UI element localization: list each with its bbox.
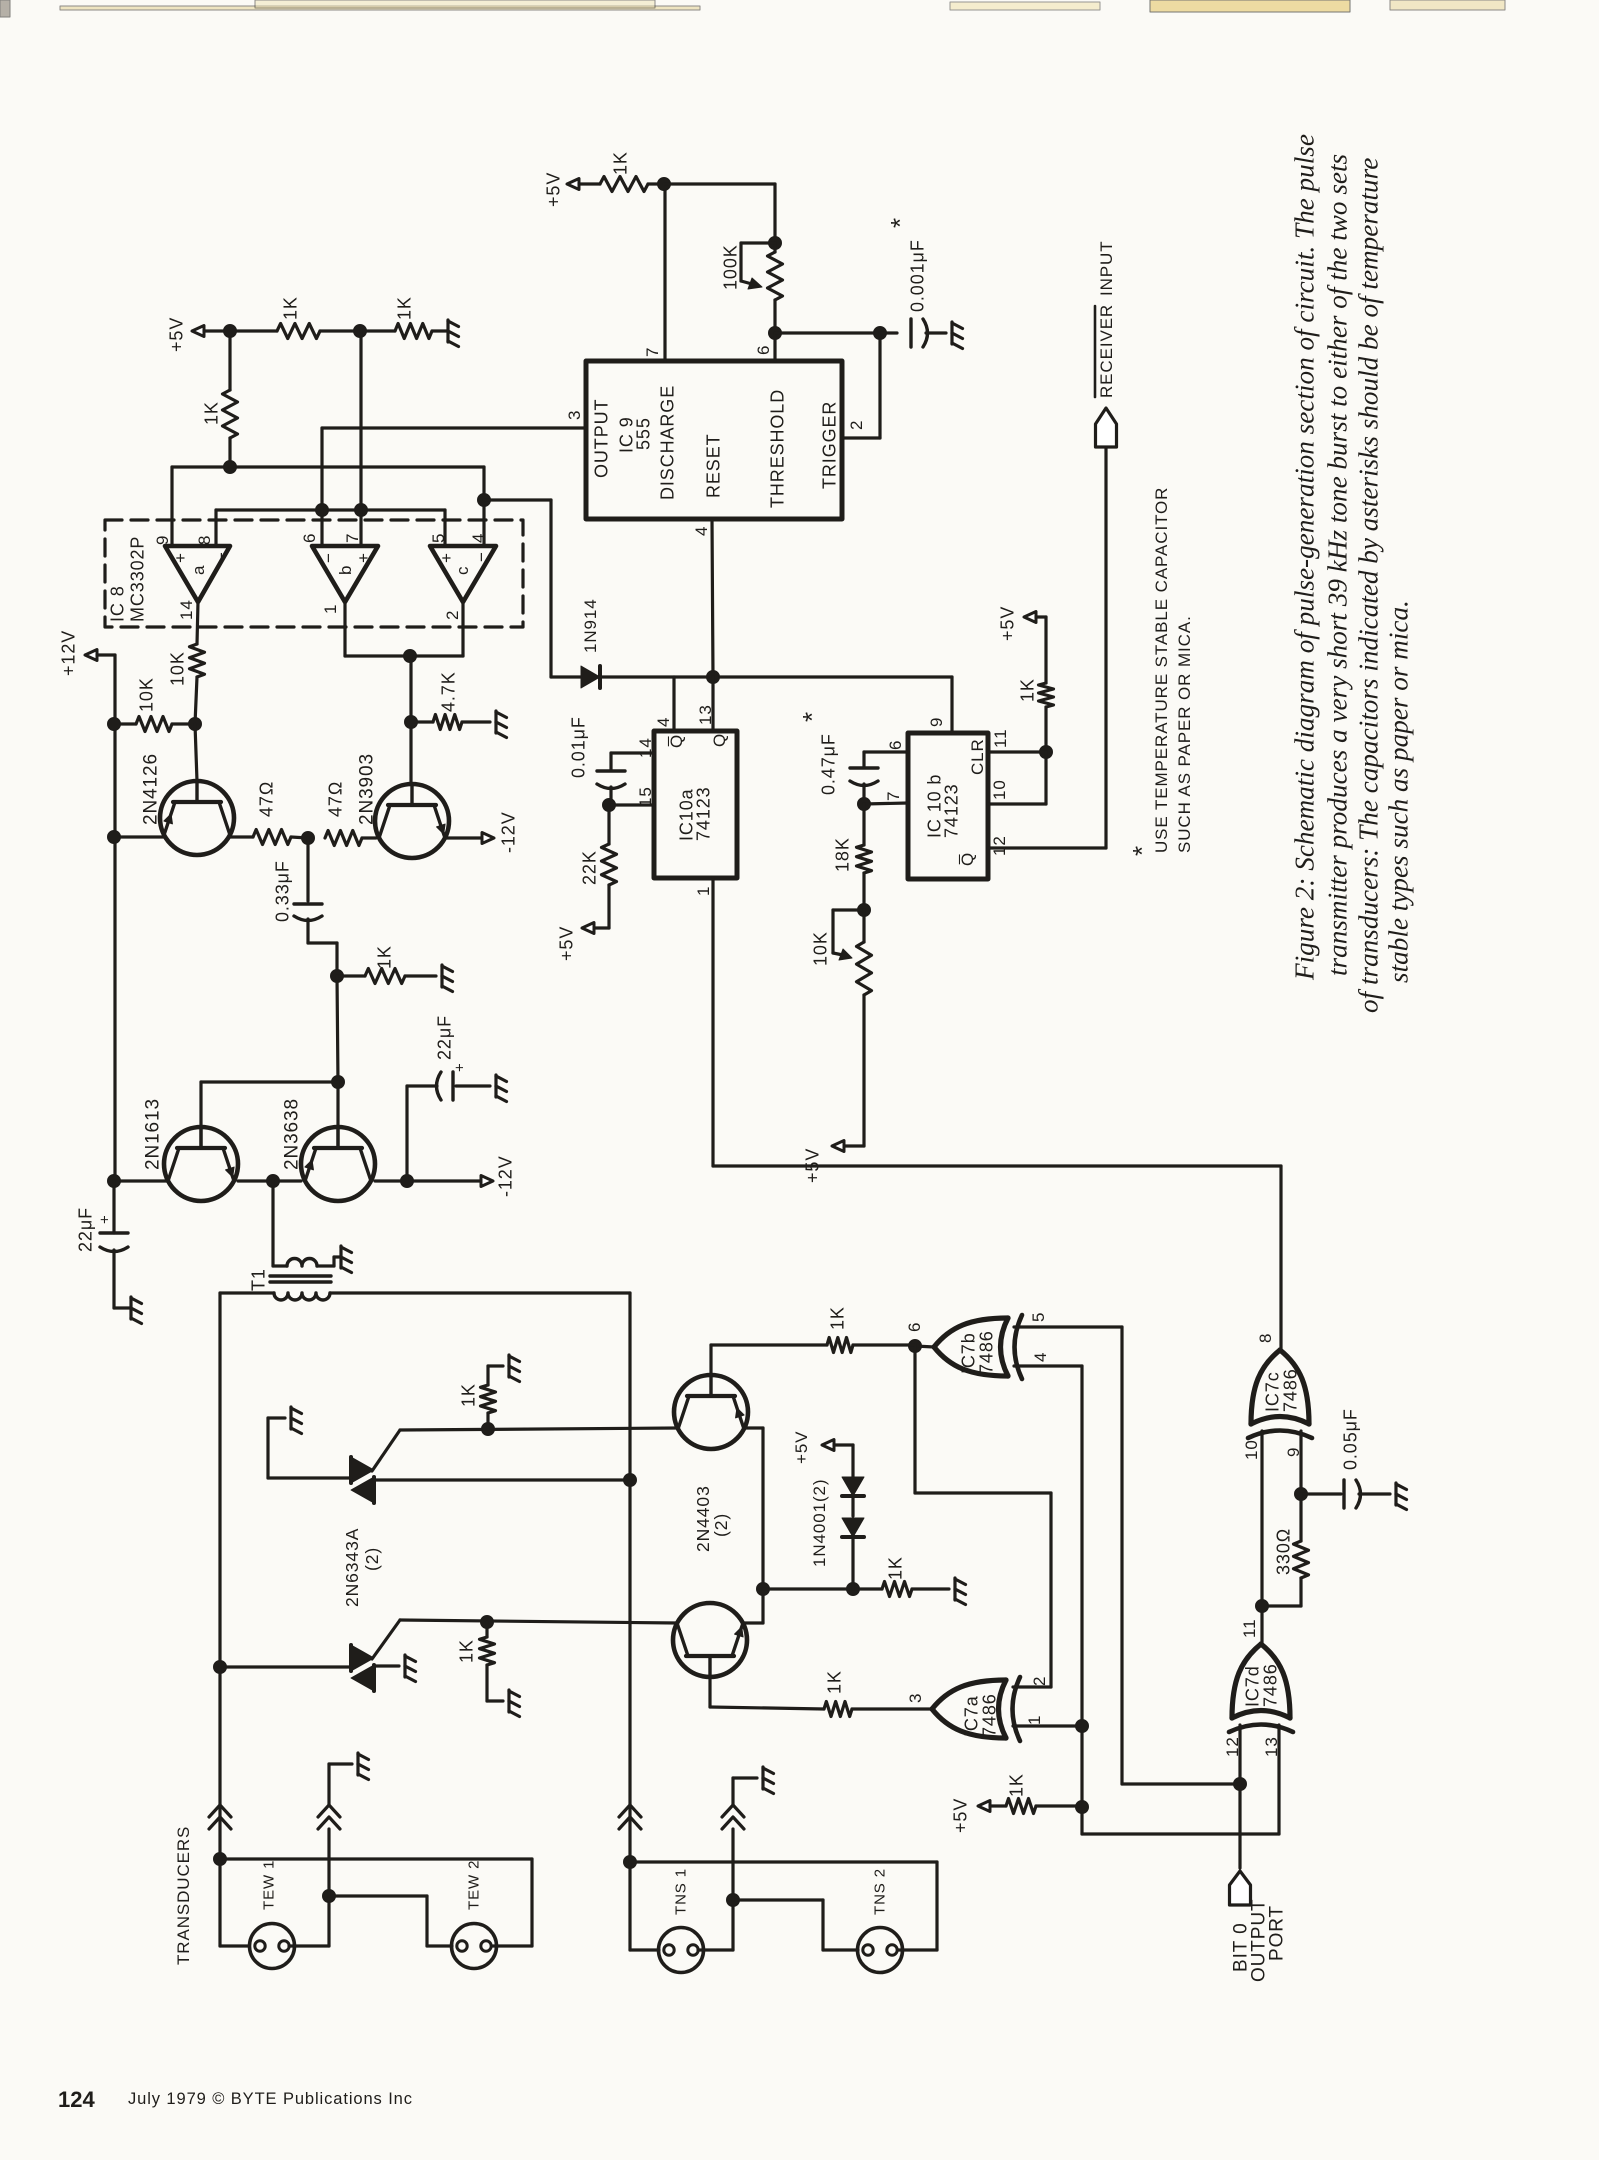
svg-text:7: 7 [643,347,662,357]
wire pin 6 [773,333,776,361]
op-amp U-c (IC8 section c) [430,546,496,602]
svg-text:1: 1 [694,886,713,896]
wire +5V rail [230,329,447,332]
transformer T1 secondary [274,1293,330,1300]
transducer TEW1 [250,1860,295,1969]
node 0.33uF/1K [331,970,344,983]
IC9 555 labels [591,385,839,508]
pin 6 label (555) [754,345,773,355]
svg-text:+12V: +12V [58,630,78,676]
svg-text:THRESHOLD: THRESHOLD [767,389,787,508]
node pin4/pin1 [1076,1720,1089,1733]
pin 4 label [469,533,488,543]
transistor Q5 2N4403 (upper) [674,1375,748,1449]
pin 13 label [696,704,715,725]
wire pin 15 [609,803,654,806]
svg-text:1K: 1K [456,1639,476,1663]
ground (emitter 1K) [955,1578,966,1605]
svg-text:1K: 1K [885,1556,905,1580]
potentiometer 100K [720,237,782,334]
node 330/pin10/pin11 [1256,1600,1269,1613]
svg-text:18K: 18K [832,837,852,872]
svg-text:1: 1 [321,604,340,614]
resistor 47 ohm (left) [230,781,308,845]
label 2N6343A (2) [342,1528,382,1607]
paper tint smudges [0,0,1505,17]
wire emitters to diode node [763,1587,853,1590]
svg-text:0.01μF: 0.01μF [568,716,588,778]
resistor 1K (divider to ground) [394,296,432,338]
power +5V (10K pot) [802,1141,844,1184]
wire TEW1 right pin [289,1896,329,1946]
pin 5 label [429,533,448,543]
transistor Q6 2N4403 (lower) [673,1603,747,1677]
wire +12V rail to 2N1613 [115,1179,168,1182]
node diodes/1K [847,1583,860,1596]
svg-text:124: 124 [58,2087,95,2112]
wire IC10a pin 13 [711,677,714,731]
wire 2N1613/2N3638 emitters [238,1179,301,1182]
wire IC7c pin 9 node [1299,1431,1302,1494]
svg-text:+5V: +5V [556,926,576,961]
svg-text:+: + [451,1062,468,1072]
triac Q8 2N6343A (lower) [351,1645,374,1691]
pin 12 label (IC7d) [1223,1736,1242,1757]
node rail/2N1613 [108,1175,121,1188]
ground (TNS1 line) [763,1767,774,1794]
power +5V (22K) [556,923,594,962]
pin 13 label (IC7d) [1262,1736,1281,1757]
node gate1/1K [482,1423,495,1436]
pin 4 label (IC7b) [1031,1352,1050,1362]
svg-text:CLR: CLR [968,738,987,775]
transistor Q2 2N3903 [357,753,449,858]
wire IC7b pin4 net [1014,1366,1082,1807]
node b/c output junction [404,650,417,663]
transformer T1 primary [273,1181,341,1266]
resistor 1K (Q7 gate) [458,1366,503,1429]
wire Q7 gate [372,1430,400,1471]
svg-text:TRIGGER: TRIGGER [819,401,839,489]
svg-text:4: 4 [654,717,673,727]
svg-text:−: − [472,551,491,562]
svg-text:0.47μF: 0.47μF [818,733,838,795]
node pin7/1K [658,178,671,191]
wire TNS rail bottom [630,1480,659,1950]
svg-text:+5V: +5V [543,172,563,207]
ground (1K) [442,965,453,992]
wire TNS1 right pin [698,1900,733,1950]
svg-text:PORT: PORT [1267,1905,1288,1961]
wire divider to op-amp b + input (pin 7) [359,331,362,546]
bit 0 output port label [1231,1898,1288,1982]
pin 7 label (555) [643,347,662,357]
IC10a labels [667,733,729,841]
svg-text:2N3638: 2N3638 [282,1098,303,1170]
svg-text:Q: Q [710,733,729,747]
node pin12/pin5 net [1234,1778,1247,1791]
svg-text:5: 5 [429,533,448,543]
svg-text:22K: 22K [579,850,599,885]
resistor 22K [579,805,616,928]
IC10a 74123 box [654,731,737,878]
svg-text:INPUT: INPUT [1097,241,1116,297]
svg-text:8: 8 [1256,1333,1275,1343]
IC10b labels [924,738,987,866]
ground (0.001uF) [952,322,963,349]
svg-text:100K: 100K [720,244,740,290]
resistor 1K (IC7a input) [710,1670,932,1716]
svg-text:10: 10 [990,779,1009,800]
node TNS1/TNS2 link [727,1894,740,1907]
wire Q5 base [709,1345,712,1375]
wire TEW cross link [220,1859,532,1946]
power +12V [58,630,115,1181]
svg-text:+: + [171,552,190,563]
svg-text:4: 4 [1031,1352,1050,1362]
op-amp U-b (IC8 section b) [312,546,378,602]
wire IC7d pin 12 / bit0 [1238,1725,1241,1868]
svg-text:−: − [212,551,231,562]
pin 9 label (IC7c) [1284,1447,1303,1457]
svg-text:22μF: 22μF [434,1015,454,1060]
node emitter/T1 junction [267,1175,280,1188]
pin 15 label [636,786,655,807]
svg-text:1: 1 [1025,1715,1044,1725]
wire T1 secondary right rail [330,1293,630,1480]
svg-text:IC7c: IC7c [1262,1371,1282,1412]
ground (4.7K) [496,711,507,738]
node line A / 1K [224,461,237,474]
wire T1 secondary left to TEW rail [220,1293,274,1667]
bit 0 output arrow [1230,1871,1251,1905]
resistor 4.7K [411,671,490,729]
pin 9 label [153,535,172,545]
power +5V (bit0 pull-up) [950,1798,1006,1833]
svg-text:330Ω: 330Ω [1273,1528,1293,1575]
diode D1 1N914 [551,598,600,688]
svg-text:2: 2 [443,610,462,620]
svg-text:9: 9 [927,717,946,727]
svg-text:6: 6 [754,345,773,355]
wire base 2N4126 [195,724,197,781]
svg-text:1K: 1K [1017,678,1037,702]
svg-text:2N3903: 2N3903 [357,753,378,825]
XOR gate IC7c 7486 [1248,1350,1312,1438]
transistor Q1 2N4126 [141,753,234,855]
node Q8/TEW rail [214,1661,227,1674]
svg-text:IC7d: IC7d [1242,1665,1262,1707]
svg-text:Q̅: Q̅ [667,734,686,748]
pin 5 label (IC7b) [1029,1312,1048,1322]
node emitter/+12V [108,831,121,844]
svg-text:7486: 7486 [979,1693,999,1737]
transformer T1 label [248,1268,268,1291]
op-amp a output wire / resistor 10K [167,602,204,724]
transducer TNS1 [659,1868,704,1973]
ground (Q8) [405,1655,416,1682]
pin 11 label (IC7d) [1240,1619,1259,1638]
wire IC10b pin 12 to receiver [988,447,1106,848]
svg-text:2N4403: 2N4403 [693,1485,713,1552]
svg-text:6: 6 [905,1322,924,1332]
svg-text:transmitter produces a very sh: transmitter produces a very short 39 kHz… [1323,154,1353,976]
pin 8 label [195,535,214,545]
node gate2/1K [481,1616,494,1629]
svg-text:6: 6 [300,533,319,543]
op-amp U-a (IC8 section a) [165,546,231,602]
svg-text:1K: 1K [610,151,630,175]
svg-text:1N914: 1N914 [581,598,600,653]
note: use temperature stable capacitor [1127,487,1194,856]
svg-text:4.7K: 4.7K [438,671,458,712]
pin 7 label (IC10b) [884,791,903,801]
wire 2N3638 to -12V [375,1179,481,1182]
transistor Q4 2N3638 [282,1098,375,1201]
transistor Q3 2N1613 [143,1098,238,1201]
svg-text:−: − [319,552,338,563]
pin 3 label [565,410,584,420]
svg-text:+: + [354,552,373,563]
svg-text:14: 14 [636,737,655,758]
svg-text:*: * [797,711,827,722]
label 1N4001(2) [810,1479,829,1567]
svg-text:10K: 10K [167,651,187,686]
wire to IN914 anode [484,500,551,677]
capacitor 22uF (-12V bypass) [407,1015,490,1181]
ground (TEW2 line) [358,1753,369,1780]
svg-text:Figure 2: Schematic diagram of: Figure 2: Schematic diagram of pulse-gen… [1290,134,1320,981]
node pin9/0.05/330 [1295,1488,1308,1501]
svg-text:6: 6 [886,740,905,750]
svg-text:2N6343A: 2N6343A [342,1528,362,1607]
wire IC7d pin 13 to +5V net [1082,1725,1279,1834]
label TRANSDUCERS [174,1826,193,1965]
svg-text:7: 7 [884,791,903,801]
svg-text:74123: 74123 [693,786,713,841]
node TEW1/TEW2 link [323,1890,336,1903]
svg-text:IC7a: IC7a [961,1695,981,1737]
wire IC10a pin 1 to IC7c output [713,878,1281,1350]
svg-text:47Ω: 47Ω [325,781,345,817]
node +12V/10K [108,718,121,731]
wire D1 cathode to IC10a pin 4 [600,677,952,731]
svg-text:+5V: +5V [166,317,186,352]
svg-text:0.001μF: 0.001μF [907,239,927,312]
svg-text:2N1613: 2N1613 [143,1098,164,1170]
wire line A (op-amp a + input net) [172,467,484,546]
svg-text:TNS 2: TNS 2 [871,1868,888,1915]
wire TNS cross link [630,1862,937,1950]
svg-text:7486: 7486 [976,1330,996,1374]
wire to IC10b pin 9 [950,677,953,733]
svg-text:1K: 1K [824,1670,844,1694]
pin 1 label (IC10a) [694,886,713,896]
wire IC7c pin 10 to IC7d pin 11 [1260,1431,1263,1644]
receiver input label [1095,241,1116,399]
svg-text:2: 2 [1030,1676,1049,1686]
svg-text:DISCHARGE: DISCHARGE [657,385,677,500]
svg-text:1N4001(2): 1N4001(2) [810,1479,829,1567]
wire Q8 MT1 to ground [374,1664,399,1667]
svg-text:1K: 1K [201,401,221,425]
svg-text:12: 12 [990,835,1009,856]
svg-text:RECEIVER: RECEIVER [1097,304,1116,398]
svg-text:1K: 1K [1006,1773,1026,1797]
svg-text:1K: 1K [827,1306,847,1330]
pin 7 label [343,533,362,543]
wire Q5 emitter down [744,1428,763,1589]
node -12V branch [401,1175,414,1188]
node 0.47/18K/pin7 [858,798,871,811]
svg-text:TEW 1: TEW 1 [260,1860,277,1910]
ground (divider) [448,320,459,347]
resistor 1K (to ground) [337,945,436,983]
svg-text:RESET: RESET [703,433,723,498]
wire Q8 gate [372,1620,400,1659]
footer page number [58,2087,95,2112]
wire pot to trigger/cap [775,331,880,334]
XOR gate IC7b 7486 [934,1315,1022,1379]
pin 1 label [321,604,340,614]
wire Q5 left terminal [400,1428,678,1430]
resistor 1K (555 supply) [600,151,664,191]
pin 2 label (555) [847,420,866,430]
wire to 100K pot [664,184,775,243]
node Q7/TNS rail [624,1474,637,1487]
resistor 1K (clear pull-up) [1017,678,1053,752]
svg-text:IC 8: IC 8 [107,585,127,622]
triac Q7 2N6343A (upper) [351,1457,374,1503]
svg-text:(2): (2) [362,1547,382,1571]
wire 2N3903 collector to -12V [445,836,482,839]
wire Q7 MT2 to ground [268,1418,351,1478]
capacitor 0.47uF [797,711,908,804]
potentiometer 10K [810,910,871,1146]
svg-text:4: 4 [469,533,488,543]
resistor 1K (bit0 pull-up) [1006,1773,1082,1813]
svg-text:7: 7 [343,533,362,543]
power -12V (Q2) [482,811,518,853]
svg-text:8: 8 [195,535,214,545]
resistor 47 ohm (right) [325,781,376,846]
svg-text:0.05μF: 0.05μF [1340,1408,1360,1470]
op-amp b output wire [345,602,410,656]
wire IC7a pin 1 [1013,1724,1082,1727]
power +5V (IC10b clear) [997,606,1046,683]
resistor 1K (emitter bias) [853,1556,949,1596]
wire Q8 MT2 to TEW rail [220,1665,351,1668]
node pin6/pot [769,327,782,340]
node 10K junction [189,718,202,731]
svg-text:10: 10 [1242,1439,1261,1460]
wire Q6 left terminal [400,1620,677,1623]
diode D2 1N4001 [842,1445,864,1516]
wire 555 output pin 3 to line B [322,428,584,546]
svg-text:IC7b: IC7b [958,1332,978,1374]
svg-text:TRANSDUCERS: TRANSDUCERS [174,1826,193,1965]
wire to driver bases [337,976,338,1082]
node reset net [707,671,720,684]
svg-text:74123: 74123 [941,783,961,838]
wire pin 7 (IC10b) [864,803,908,804]
node 0.01/22K/pin15 [603,799,616,812]
ground (T1 primary) [341,1246,352,1273]
footer credit [128,2090,413,2108]
label 2N4403 (2) [693,1485,731,1552]
transducer chevrons TNS rail [619,1805,641,1829]
resistor 1K (rail to divider) [277,296,320,338]
svg-text:b: b [336,565,355,575]
svg-text:2N4126: 2N4126 [141,753,162,825]
svg-text:1K: 1K [280,296,300,320]
ground (Q7 gate 1K) [509,1355,520,1382]
IC9 555 box [586,361,842,519]
node 18K/pot [858,904,871,917]
svg-text:TEW 2: TEW 2 [465,1860,482,1910]
svg-text:5: 5 [1029,1312,1048,1322]
ground (0.05uF) [1396,1483,1407,1510]
svg-text:TNS 1: TNS 1 [672,1868,689,1915]
svg-text:SUCH AS PAPER OR MICA.: SUCH AS PAPER OR MICA. [1175,615,1194,853]
node rail-1K junction [224,325,237,338]
svg-text:1K: 1K [394,296,414,320]
wire pin 11 [988,750,1046,753]
node trigger junction [874,327,887,340]
svg-text:4: 4 [692,526,711,536]
pin 2 label (IC7a) [1030,1676,1049,1686]
power +5V (diode bias) [792,1431,853,1464]
capacitor 0.33uF [272,838,337,976]
node line B / pin 6 [316,504,329,517]
wire 555 pin 7 [663,184,666,361]
svg-text:of transducers: The capacitors: of transducers: The capacitors indicated… [1354,158,1384,1013]
transducer chevrons TEW2 line [318,1764,352,1896]
resistor 1K (Q8 gate) [456,1622,503,1701]
node line B / pin 7 [355,504,368,517]
svg-text:Q̅: Q̅ [958,852,977,866]
pin 6 label [300,533,319,543]
svg-text:-12V: -12V [495,1155,515,1197]
pin 6 label (IC10b) [886,740,905,750]
resistor 1K (IC7b input) [711,1306,915,1352]
wire 555 pin 4 [712,519,713,677]
pin 2 label [443,610,462,620]
IC10b 74123 box [908,733,988,879]
svg-text:stable types such as paper or: stable types such as paper or mica. [1384,600,1414,983]
node emitters [757,1583,770,1596]
receiver input arrow [1096,408,1117,447]
wire TEW2 left pin [329,1896,452,1946]
pin 14 label [177,599,196,620]
pin 9 label (IC10b) [927,717,946,727]
wire line B (555 output net) [216,510,445,546]
svg-text:7486: 7486 [1260,1663,1280,1707]
pin 10 label (IC7c) [1242,1439,1261,1460]
node base/4.7K [405,716,418,729]
transducer chevrons TEW1 line [209,1805,231,1829]
svg-text:10K: 10K [136,677,156,712]
svg-text:+5V: +5V [802,1148,822,1183]
svg-text:9: 9 [153,535,172,545]
power +5V (comparator pull-up rail) [166,317,230,352]
svg-text:+: + [437,552,456,563]
svg-text:11: 11 [1240,1619,1259,1638]
wire Q6 base [708,1677,711,1707]
svg-text:c: c [453,566,472,575]
svg-text:+: + [96,1214,113,1224]
node TNS junction [624,1856,637,1869]
